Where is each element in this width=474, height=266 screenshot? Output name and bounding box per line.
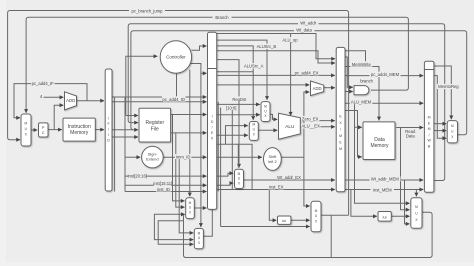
wire pc_add4 to mux M9 input 3 [434,76,446,139]
wire RF input 3 line from IF/ID [112,129,133,131]
wire pc_branch_jump (top wrap) [8,11,349,216]
wire pc_add4_MEM to MEM/WB [345,75,423,77]
wire input 3 to mux M7 [221,226,310,228]
svg-text:M: M [252,123,255,127]
mux M2 (ALU operand B) [261,102,270,122]
wire ALU Zero_EX out [300,120,335,122]
svg-text:C: C [42,130,45,135]
text mux M4 [238,172,241,186]
wire forward vertical EX column [231,104,233,189]
wire tap to mux M6 input 2 [154,214,193,239]
label inst_ID [156,187,172,192]
wire pc_add4 to ADD2 [217,84,310,86]
svg-text:inst_EX: inst_EX [269,185,284,190]
svg-text:ALUSrc_A: ALUSrc_A [244,64,264,69]
svg-text:branch: branch [360,79,373,84]
mux M5 (forwarding) [186,198,195,219]
mux M4 (RegDst) [235,169,244,188]
wire MemWrite to Data Memory [345,67,379,121]
wire mux M1 to PC [31,129,37,131]
wire ReadData_WB to mux M9 input 2 [434,130,446,132]
svg-text:F: F [108,122,110,126]
label ALU_MEM [350,99,373,104]
wire PC out to Instruction Memory [48,129,62,131]
svg-text:Wt_addr_MEM: Wt_addr_MEM [371,177,399,182]
wire controller bottom stub [176,73,178,100]
svg-text:/: / [429,133,430,137]
svg-text:ALU_MEM: ALU_MEM [351,99,372,104]
svg-text:M: M [238,172,241,176]
text mux M8 [415,205,418,222]
wire operand A feeder to mux M3 [226,126,248,145]
wire RF read data 2 to ID/EX [171,132,207,134]
svg-text:Data: Data [406,133,416,138]
svg-text:Wt_addr_EX: Wt_addr_EX [277,175,301,180]
wire RF read data 2 forwarding tap to mux M5 input 2 [176,133,185,207]
svg-text:ADD: ADD [66,98,75,103]
label pc_add4_MEM [370,72,401,78]
svg-text:Wt_addr: Wt_addr [300,20,316,25]
wire controller out 1 to ID/EX [192,46,207,50]
wire mux M2 out to ALU input 1 [270,114,277,119]
svg-text:Register: Register [145,120,164,126]
svg-text:M: M [415,205,418,209]
svg-text:M: M [264,105,267,109]
svg-text:Controller: Controller [166,55,186,60]
svg-text:MemWrite: MemWrite [352,62,372,67]
label Wt_data [294,27,315,33]
label inst_EX [269,185,285,190]
wire mux M6 out to ID/EX bottom [203,210,212,237]
label ALUSrc_B [255,44,277,49]
wire inst to controller [126,56,158,115]
PC register [39,123,49,137]
svg-text:/: / [212,126,213,130]
wire controller out 2 to ID/EX [190,64,206,74]
svg-text:ALU__EX: ALU__EX [302,124,321,129]
label ALU_op [282,37,298,42]
wire Read Data to MEM/WB [396,127,423,129]
label ALU_EX [301,123,321,128]
pipeline register EX/MEM [336,47,345,191]
wire ALU_MEM to MEM/WB [345,102,423,104]
label inst_MEM [371,187,395,192]
wire lui1 out to mux M7 [291,219,310,221]
wire IM out to IF/ID [95,129,104,131]
wire inst_MEM to lui2 [351,190,377,217]
wire lui2 out to mux M8 [391,215,409,217]
svg-text:M: M [24,122,27,126]
text mux M6 [198,231,201,245]
svg-text:RegDst: RegDst [232,97,247,102]
svg-text:[10:6]: [10:6] [226,105,236,110]
label inst[15:11] [154,181,172,186]
wire ALU_op control [290,34,292,116]
label Wt_addr_EX [276,175,302,180]
wire ALUSrc_B control [217,40,267,100]
label RegDst [231,96,248,101]
ALU [279,113,301,139]
wire short vertical pair near RegDst select [237,144,239,167]
wire [10:6] shamt to mux M2 input 2 [217,114,260,116]
wire Wt_data (writeback data wrap) [131,31,467,135]
svg-text:MemtoReg: MemtoReg [438,84,459,89]
wire instruction field splitter vertical [124,97,126,192]
Data Memory [363,122,395,160]
wire inst_MEM to MEM/WB [345,189,423,191]
text mux M2 [264,105,267,119]
label pc_add4_EX [295,70,319,75]
svg-text:ALU: ALU [285,124,295,129]
wire select to mux M8 [415,190,417,197]
wire ADD1 out to IF/ID [77,100,105,102]
wire ALU_WB to mux M9 input 1 [434,123,446,125]
wire MemtoReg select to mux M9 [434,66,451,119]
mux M8 (bottom right writeback select) [411,198,422,229]
pipeline register MEM/WB [424,61,434,192]
text EX/MEM [339,115,342,152]
wire controller select to mux M6 [200,73,202,227]
label MemWrite [350,61,373,66]
wire vertical bus right of ID/EX [217,102,219,192]
wire Wt_addr (writeback address wrap) [128,24,445,181]
wire inst_EX to EX/MEM [217,189,335,191]
svg-text:M: M [451,124,454,128]
AND gate (branch) [354,86,369,95]
label Read Data [403,129,418,138]
label imm_ID [175,154,192,159]
text mux M1 [24,122,27,137]
wire imm to sign-extend [125,156,140,158]
wire mux M3 select control [217,46,254,120]
wire imm_EX to shift left 2 [217,156,262,158]
svg-text:pc_add4_IF: pc_add4_IF [32,81,55,86]
ID/EX segment divider [208,68,217,70]
svg-text:left 2: left 2 [268,159,276,164]
label branch [359,78,374,83]
mux M1 (PC source) [21,114,31,146]
wire Wt_addr_EX to EX/MEM [244,179,335,181]
wire imm_ID sign-extend to ID/EX [163,156,206,158]
wire ALU result ALU_EX out [300,126,335,128]
text mux M3 [252,123,255,137]
svg-text:/: / [340,128,341,132]
svg-text:M: M [428,116,431,120]
wire mux M7 out to pc_branch_jump riser [321,214,349,216]
svg-text:Extend: Extend [146,157,158,162]
svg-text:inst_MEM: inst_MEM [373,187,392,192]
wire Read Data tap to mux M8 input 2 [401,128,410,210]
wire inst_EX to lui1 [269,190,276,221]
lui box L2 (MEM) [378,212,391,222]
svg-text:lui: lui [282,218,286,223]
mux M6 (forwarding lower) [194,228,203,248]
svg-text:M: M [198,231,201,235]
Controller circle [160,41,191,73]
wire pc_add4_EX to EX/MEM [217,74,335,76]
wire Zero flag into AND gate [345,91,353,93]
label Wt_addr_MEM [370,176,401,181]
svg-text:ALUSrc_B: ALUSrc_B [257,44,277,49]
svg-text:M: M [315,209,318,213]
svg-text:ADD: ADD [313,86,322,91]
wire tap to mux M5 input 1 [173,115,185,201]
wire control ID/EX top line 1 [217,34,335,59]
wire to RF read address 1 [126,115,138,117]
wire Wt_addr_MEM to MEM/WB [345,179,423,181]
wire to RF write data port [112,136,138,138]
wire inst[20:16] to ID/EX [125,175,207,177]
svg-text:/: / [108,128,109,132]
text ID/EX [211,115,214,141]
wire ADD2 out to EX/MEM [324,87,335,89]
wire pc_add4_ID [112,101,207,103]
label pc_add4_IF [31,80,55,86]
svg-text:M: M [339,134,342,138]
label inst[20:16] [128,173,146,178]
label Zero_EX [301,116,320,121]
label pc_add4_ID [162,96,186,101]
pipeline register IF/ID [105,69,112,191]
svg-text:pc_add4_EX: pc_add4_EX [295,70,319,75]
Instruction Memory [63,118,95,141]
text mux M7 [315,209,318,224]
label Wt_addr [298,20,319,26]
wire ALU_MEM to Data Memory address [355,103,362,127]
svg-text:pc_add4_ID: pc_add4_ID [162,97,185,102]
mux M7 (branch target select) [311,201,321,232]
wire PC up to ADD1 [54,105,63,129]
text mux M9 [451,124,454,139]
svg-text:ALU_op: ALU_op [282,38,298,43]
wire inst fields to mux M4 input 2 [217,183,234,185]
wire ALU_MEM continuation to mux M8 input 1 [355,127,410,203]
wire Branch (select wrap) [26,17,408,113]
wire control line long to EX/MEM [217,51,335,63]
mux M9 (MemtoReg) [447,121,457,143]
wire RegDst control [217,60,239,168]
lui box L1 (EX) [278,216,291,224]
wire store data to Data Memory [345,111,362,157]
svg-text:Zero_EX: Zero_EX [302,116,319,121]
svg-text:I: I [108,133,109,137]
MEM/WB segment divider [424,69,434,71]
svg-text:pc_add4_MEM: pc_add4_MEM [371,72,400,77]
wire Branch control into AND gate [345,57,353,87]
wire Wt_addr tap to mux M8 input 4 [405,180,410,224]
text IF/ID [107,117,110,143]
svg-text:I: I [212,115,213,119]
wire inst[15:11] to ID/EX [125,184,207,186]
wire tap to mux M6 input 3 [158,221,193,245]
wire inst fields to mux M4 input 1 [217,173,234,176]
adder ADD1 (PC+4) [65,92,77,110]
adder ADD2 (branch target) [311,81,324,96]
Sign-Extend circle [142,146,164,168]
wire tap to mux M6 input 1 [179,157,193,233]
label ALUSrc_A [243,63,265,68]
svg-text:Memory: Memory [70,130,89,136]
wire mux M3 out to ALU input 2 [258,129,277,131]
svg-text:pc_branch_jump: pc_branch_jump [132,8,164,13]
Register File [139,108,171,142]
wire vertical bus feeding mux M7 input 3 [220,108,222,227]
label pc_branch_jump [129,8,165,13]
svg-text:inst[20:16]: inst[20:16] [128,174,147,179]
wire control stub over EX/MEM [345,51,366,67]
mux M3 (ALU operand A) [249,122,258,141]
wire mux M5 out to ID/EX [194,207,206,209]
wire controller select to mux M5 [189,70,191,197]
wire RF read data 1 to ID/EX [171,114,207,116]
wire operand B to mux M3 input 2 [217,134,248,136]
svg-text:inst_ID: inst_ID [157,187,170,192]
svg-text:I: I [108,117,109,121]
svg-text:File: File [151,126,159,132]
wire inst into ID/EX [112,96,207,98]
svg-text:Memory: Memory [370,143,389,149]
text mux M5 [189,201,192,215]
wire input 1 to mux M7 [304,157,310,206]
svg-text:M: M [339,147,342,151]
svg-text:Wt_data: Wt_data [296,28,312,33]
label MemtoReg [437,84,461,89]
svg-text:lui: lui [383,215,387,220]
pipeline register ID/EX [208,32,217,209]
wire mux M8 out wrap around bottom [184,212,433,257]
wire ALUSrc_A control [217,71,254,73]
text MEM/WB [427,116,431,149]
svg-text:M: M [428,127,431,131]
wire pc_add4_IF feedback [14,84,87,118]
label Branch [213,15,232,20]
wire operand bus from ID/EX [217,144,252,189]
wire operand to mux M2 input 1 [217,103,260,105]
svg-text:Branch: Branch [215,15,229,20]
wire shift left 2 out to ADD2 [280,92,309,157]
wire inst_ID lower to ID/EX [125,191,207,193]
wire bottom riser joining mux M7 output [330,215,332,257]
wire constant 4 to ADD1 [44,96,64,98]
svg-text:M: M [189,201,192,205]
wire vertical bus right of IF/ID [114,97,116,192]
label [10:6] [226,105,238,110]
Shift left 2 ellipse [264,148,282,171]
svg-text:inst[15:11]: inst[15:11] [153,181,172,186]
svg-text:imm_ID: imm_ID [176,154,190,159]
